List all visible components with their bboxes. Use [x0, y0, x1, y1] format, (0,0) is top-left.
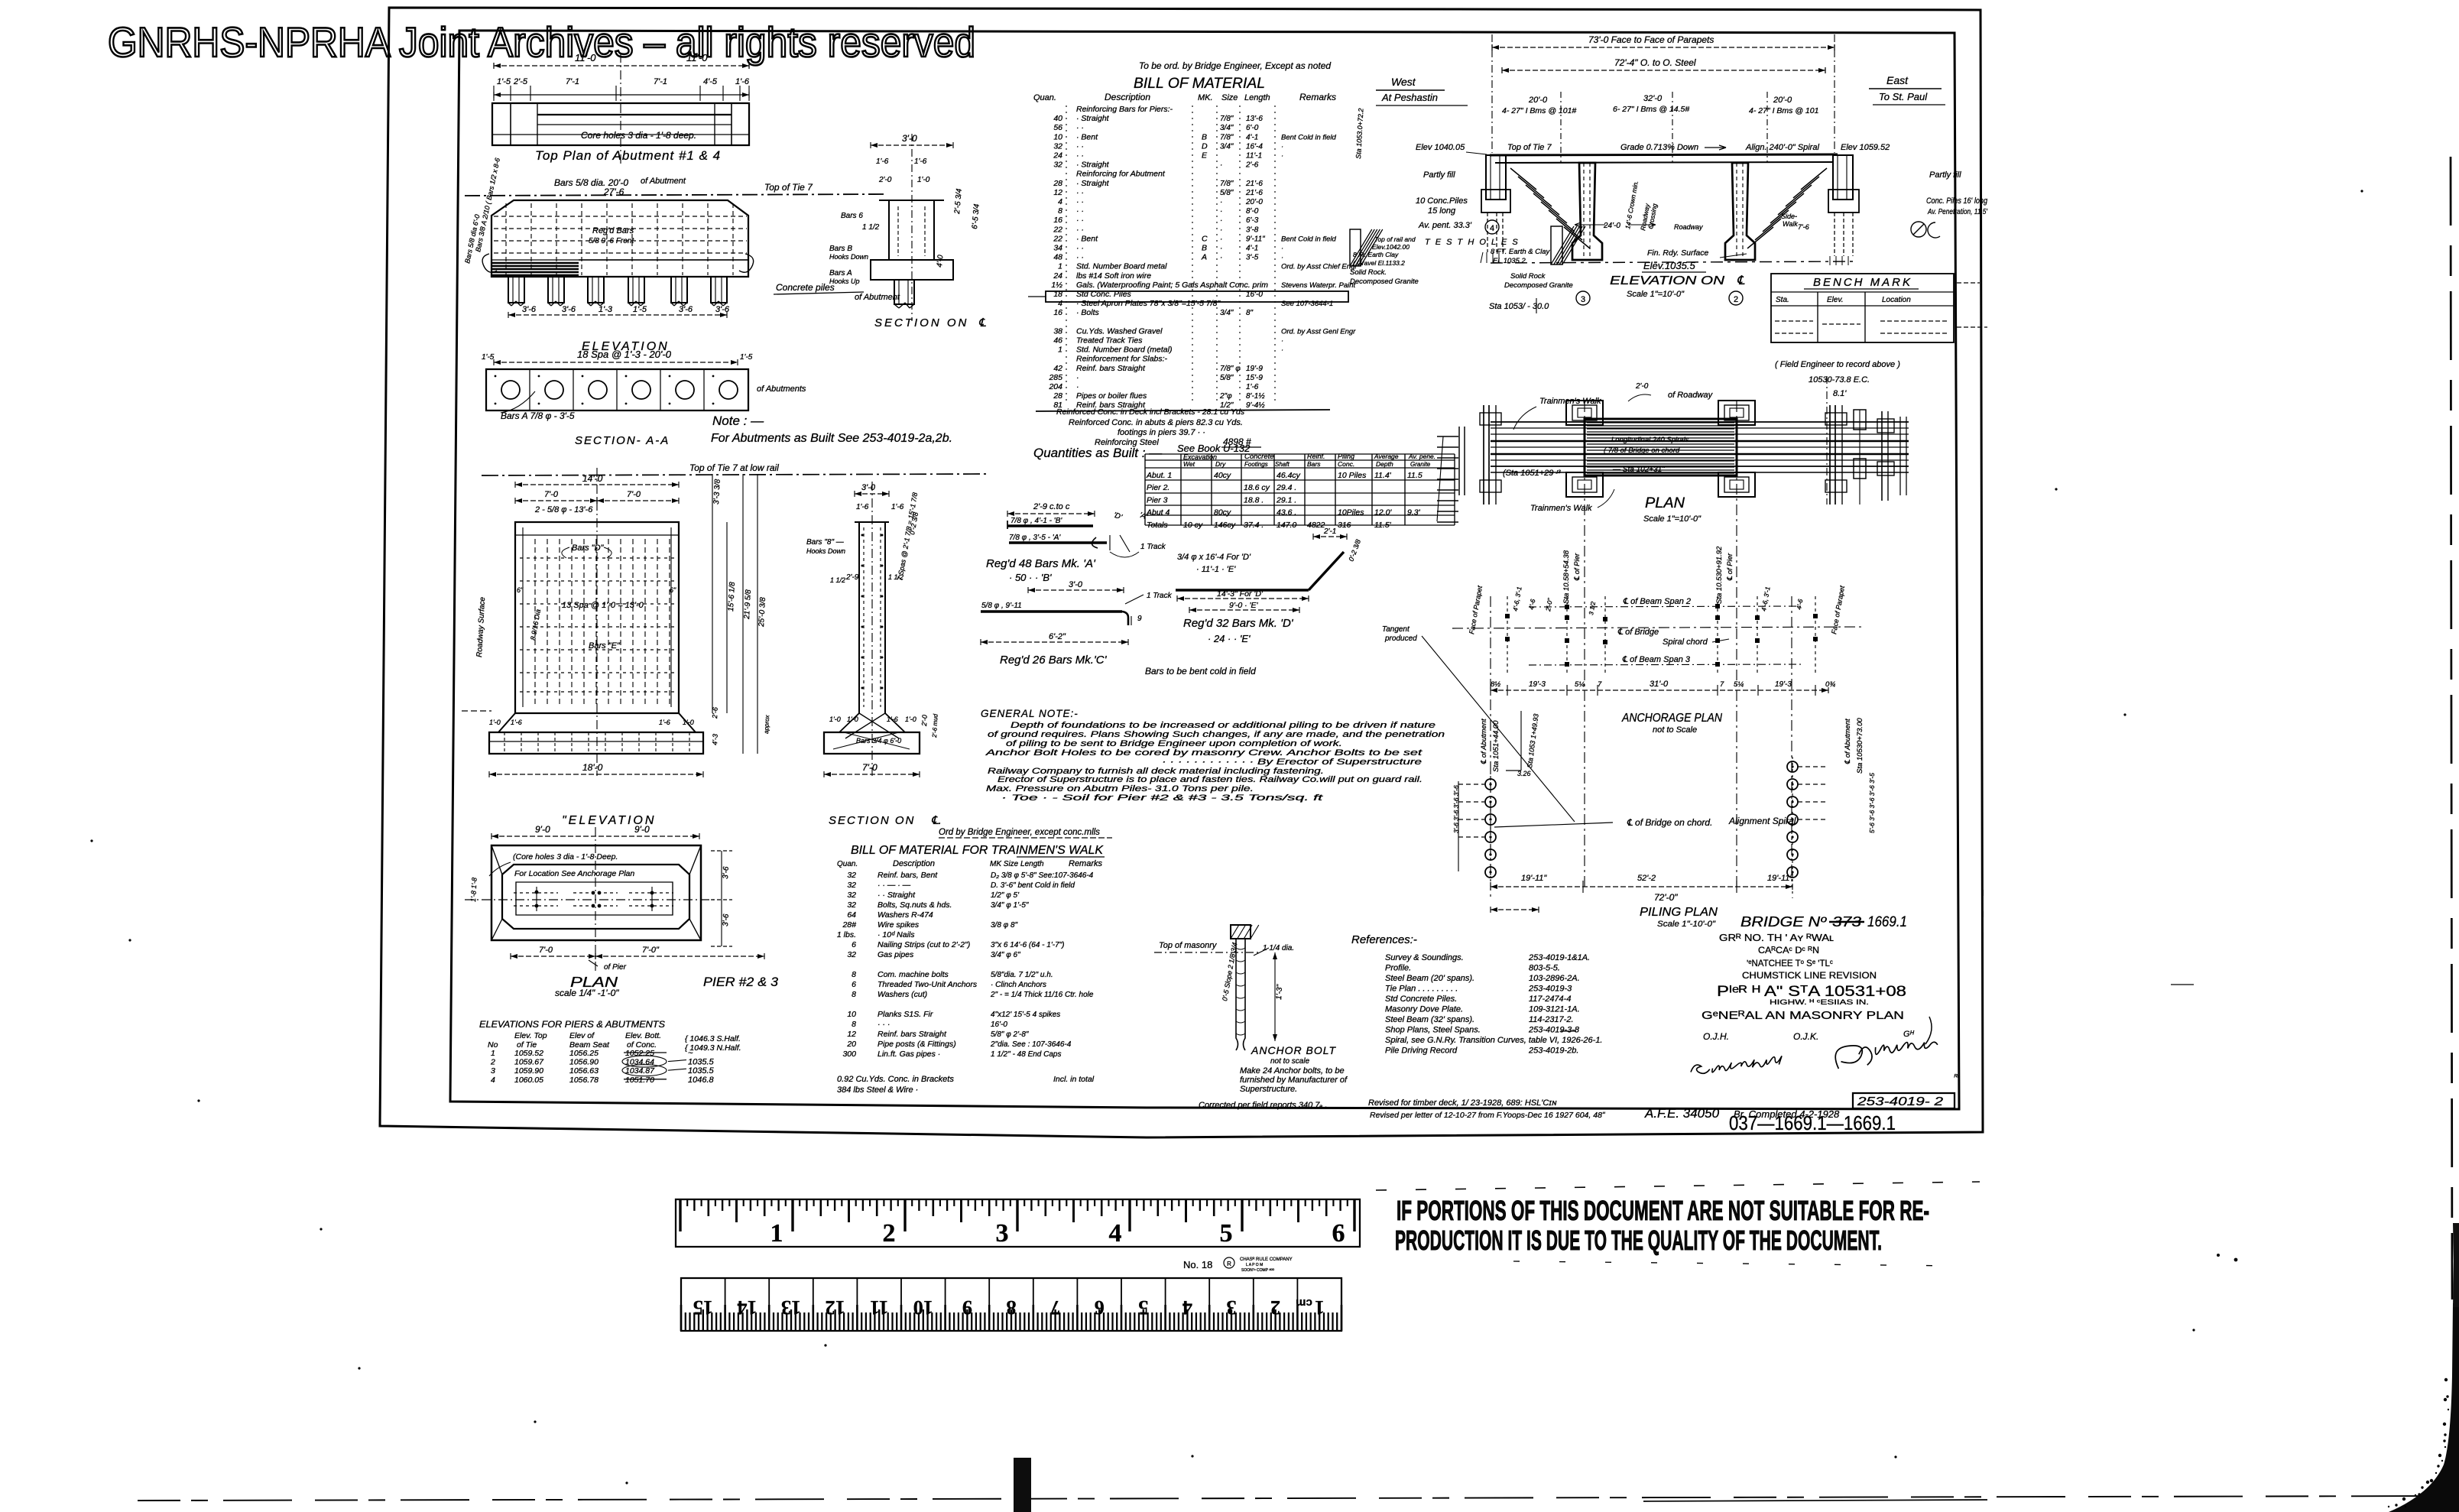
svg-text:Bars B: Bars B: [829, 245, 852, 253]
svg-text:1'-0: 1'-0: [829, 715, 841, 723]
svg-text:Tie Plan . . . . . . . . .: Tie Plan . . . . . . . . .: [1385, 985, 1458, 994]
svg-text:Reg'd Bars: Reg'd Bars: [592, 226, 634, 235]
svg-text:1669.1: 1669.1: [1867, 914, 1907, 930]
svg-text:Partly fill: Partly fill: [1929, 170, 1961, 180]
svg-text:Hooks Down: Hooks Down: [829, 253, 868, 261]
stamp smudge dashes: [1376, 1182, 1980, 1190]
svg-text:℄ of Abutment: ℄ of Abutment: [1844, 719, 1852, 764]
svg-text:3'-6: 3'-6: [522, 305, 537, 314]
svg-text:6": 6": [670, 586, 676, 594]
test hole hatched bar center: [1551, 226, 1562, 264]
svg-text:D. 3'-6" bent Cold in f: D. 3'-6" bent Cold in field: [991, 881, 1075, 890]
svg-text:Cu.Yds. Washed Gravel: Cu.Yds. Washed Gravel: [1076, 326, 1163, 336]
svg-text:1035.5: 1035.5: [688, 1066, 715, 1076]
abutment elevation hooks: [482, 254, 497, 272]
anchorage plan beam span 3 line: [1529, 664, 1804, 665]
svg-text:28#: 28#: [842, 920, 856, 930]
svg-text:Bars A 7/8 φ - 3'-5: Bars A 7/8 φ - 3'-5: [501, 410, 575, 421]
right edge scan line: [2451, 157, 2452, 1299]
svg-text:Erector of Superstructure is t: Erector of Superstructure is to place an…: [998, 775, 1423, 784]
svg-text:not to scale: not to scale: [1270, 1057, 1310, 1066]
svg-text:Bent Cold in field: Bent Cold in field: [1281, 235, 1337, 243]
svg-text:1'-3": 1'-3": [1275, 984, 1284, 1000]
svg-text:24: 24: [1053, 151, 1062, 161]
corner wedge speckle: [2388, 1506, 2389, 1507]
svg-text:Elev.1042.00: Elev.1042.00: [1372, 243, 1410, 251]
circled numbers: [1576, 291, 1590, 305]
svg-text:8'-0: 8'-0: [1246, 207, 1259, 216]
cm ruler body: [681, 1278, 1341, 1331]
svg-text:· · ·: · · ·: [878, 1020, 890, 1029]
svg-text:Concrete piles: Concrete piles: [776, 282, 835, 293]
svg-text:2'-9 c.to c: 2'-9 c.to c: [1033, 502, 1070, 511]
svg-text:· ·: · ·: [1076, 141, 1084, 151]
svg-text:8: 8: [852, 1020, 856, 1029]
svg-text:Solid Rock: Solid Rock: [1510, 272, 1546, 281]
svg-text:9'-0: 9'-0: [634, 824, 650, 835]
right abutment strips in plan: [1881, 411, 1883, 501]
svg-text:Reinforced Conc. in abuts & pi: Reinforced Conc. in abuts & piers 82.3 c…: [1069, 418, 1243, 427]
svg-text:· ·: · ·: [1076, 197, 1084, 206]
svg-text:9: 9: [1137, 615, 1142, 623]
svg-text:48: 48: [1053, 253, 1062, 262]
svg-text:· · · · · · · · · · · · B: · · · · · · · · · · · · By Erector of Su…: [1162, 758, 1422, 767]
svg-text:46.4cy: 46.4cy: [1277, 471, 1301, 480]
svg-text:3'-8: 3'-8: [1246, 226, 1259, 234]
pier section column: [858, 522, 860, 713]
svg-text:16: 16: [1053, 308, 1062, 317]
sparse specks: [90, 839, 92, 842]
svg-text:( Gravel El.1133.2: ( Gravel El.1133.2: [1353, 259, 1405, 267]
svg-text:37.4 .: 37.4 .: [1244, 521, 1264, 530]
svg-text:℄ of Pier: ℄ of Pier: [1573, 553, 1581, 581]
svg-text:Quan.: Quan.: [837, 860, 858, 868]
abutment pile spacing dimensions: [508, 314, 727, 316]
svg-text:1059.52: 1059.52: [514, 1049, 543, 1058]
svg-text:7/8": 7/8": [1220, 133, 1234, 141]
svg-text:Side-: Side-: [1781, 213, 1797, 220]
svg-text:32: 32: [847, 881, 856, 890]
svg-text:4"x12' 15'-5 4 spikes: 4"x12' 15'-5 4 spikes: [991, 1011, 1060, 1019]
svg-text:footings in piers 39.7 ·: footings in piers 39.7 · ·: [1118, 428, 1205, 437]
svg-text:5/8": 5/8": [1220, 374, 1234, 382]
svg-text:2'-0: 2'-0: [878, 176, 892, 184]
svg-text:13 Spa @ 1'-0 = 13'-0: 13 Spa @ 1'-0 = 13'-0: [562, 601, 644, 610]
svg-text:Align. 240'-0" Spiral: Align. 240'-0" Spiral: [1745, 143, 1819, 152]
piling plan left pile column: [1485, 779, 1496, 790]
svg-text:147.0: 147.0: [1277, 521, 1296, 530]
svg-text:10 cy: 10 cy: [1183, 521, 1203, 530]
svg-text:10Piles: 10Piles: [1338, 508, 1364, 518]
svg-text:(Core holes 3 dia - 1'-8 Deep.: (Core holes 3 dia - 1'-8 Deep.: [513, 852, 618, 861]
svg-text:21'-6: 21'-6: [1245, 180, 1263, 188]
svg-text:32: 32: [847, 950, 856, 959]
piling plan dimensions: [1491, 886, 1792, 887]
svg-text:HIGHW. ᴴ ᶜESIIAS IN.: HIGHW. ᴴ ᶜESIIAS IN.: [1770, 998, 1869, 1007]
svg-text:80cy: 80cy: [1214, 508, 1231, 518]
svg-text:Remarks: Remarks: [1069, 859, 1103, 868]
svg-text:1'-3: 1'-3: [599, 305, 613, 314]
svg-text:Grade 0.713% Down: Grade 0.713% Down: [1620, 143, 1698, 152]
svg-text:1051.70: 1051.70: [625, 1076, 654, 1085]
drawing number box: [1853, 1093, 1955, 1108]
svg-text:32: 32: [1053, 161, 1062, 170]
svg-text:4822: 4822: [1307, 521, 1325, 530]
svg-text:3'-3 3/8: 3'-3 3/8: [712, 479, 722, 505]
svg-text:253-4019-2b.: 253-4019-2b.: [1528, 1046, 1578, 1056]
svg-text:5'-6 3'-6 3'-6 3'-6 3'-5: 5'-6 3'-6 3'-6 3'-6 3'-5: [1868, 773, 1876, 833]
svg-text:Fin. Rdy. Surface: Fin. Rdy. Surface: [1647, 248, 1708, 258]
svg-text:24: 24: [1053, 271, 1062, 281]
svg-text:6'-0: 6'-0: [1246, 124, 1259, 132]
svg-text:1'-6: 1'-6: [856, 503, 869, 511]
svg-text:Ord. by Asst Chief Engr: Ord. by Asst Chief Engr: [1281, 263, 1358, 271]
svg-text:1 Track: 1 Track: [1147, 592, 1173, 600]
svg-text:·: ·: [1076, 373, 1079, 382]
svg-text:1035.5: 1035.5: [688, 1058, 715, 1067]
svg-text:7'-0: 7'-0: [862, 762, 878, 773]
svg-text:Elev 1040.05: Elev 1040.05: [1416, 143, 1465, 152]
svg-text:Stevens Waterpr. Paint: Stevens Waterpr. Paint: [1281, 281, 1356, 290]
svg-text:· 24 · · 'E': · 24 · · 'E': [1208, 633, 1251, 644]
svg-text:L A P O M: L A P O M: [1246, 1263, 1263, 1267]
svg-text:Abut 4: Abut 4: [1146, 508, 1170, 518]
svg-text:3'-6: 3'-6: [562, 305, 576, 314]
svg-text:15'-6 1/8: 15'-6 1/8: [727, 582, 737, 612]
svg-text:3: 3: [996, 1219, 1009, 1248]
svg-text:12: 12: [1053, 188, 1062, 197]
svg-text:253-4019- 2: 253-4019- 2: [1857, 1095, 1943, 1108]
svg-text:24'-0: 24'-0: [1603, 222, 1620, 230]
svg-text:Bars A: Bars A: [829, 269, 852, 277]
svg-text:BENCH MARK: BENCH MARK: [1813, 276, 1912, 289]
svg-text:7/8 φ , 3'-5 - 'A': 7/8 φ , 3'-5 - 'A': [1009, 534, 1061, 542]
svg-text:037—1669.1—1669.1: 037—1669.1—1669.1: [1729, 1111, 1896, 1134]
svg-text:Sta 10.58+54.38: Sta 10.58+54.38: [1562, 550, 1571, 604]
svg-text:Walk: Walk: [1783, 220, 1798, 228]
svg-text:· ·: · ·: [1076, 216, 1084, 225]
svg-text:· Straight: · Straight: [1076, 179, 1110, 188]
top of tie line: [465, 194, 887, 196]
svg-text:1 Track: 1 Track: [1140, 543, 1166, 551]
svg-text:11'-1: 11'-1: [1246, 152, 1262, 161]
svg-text:· Bent: · Bent: [1076, 132, 1098, 141]
svg-text:℄ of Bridge: ℄ of Bridge: [1617, 628, 1659, 637]
svg-text:scale 1/4" -1'-0": scale 1/4" -1'-0": [555, 988, 619, 998]
pier plan 9-0 dims: [491, 835, 699, 837]
svg-text:6": 6": [517, 586, 524, 594]
svg-text:21'-9 5/8: 21'-9 5/8: [743, 589, 753, 621]
svg-text:9'-11": 9'-11": [1246, 235, 1265, 243]
svg-text:· Toe ·: · Toe · - Soil for Pier #2 & #3 - 3.5 To…: [1001, 793, 1324, 803]
svg-text:7/8": 7/8": [1220, 115, 1234, 123]
svg-text:Elev. Top: Elev. Top: [514, 1031, 547, 1040]
svg-text:Pipes or boiler flues: Pipes or boiler flues: [1076, 391, 1147, 401]
svg-text:Pᴵᵉᴿ ᴴ Aʺ SᵀA 10531+08: Pᴵᵉᴿ ᴴ Aʺ SᵀA 10531+08: [1717, 984, 1906, 1000]
svg-text:Quan.: Quan.: [1033, 93, 1056, 102]
svg-text:Com. machine bolts: Com. machine bolts: [878, 970, 949, 979]
bill of material column rules: [1066, 105, 1067, 404]
piling plan right pile column: [1787, 761, 1798, 772]
svg-text:Bars "E": Bars "E": [589, 641, 621, 651]
svg-text:·: ·: [1281, 152, 1283, 161]
anchorage plan bridge centerline: [1452, 627, 1865, 628]
svg-text:Depth of foundations to be: Depth of foundations to be increased or …: [1011, 721, 1435, 730]
svg-text:11.4': 11.4': [1374, 471, 1392, 480]
svg-text:SECTION ON: SECTION ON: [829, 814, 915, 827]
svg-text:SECTION ON: SECTION ON: [874, 316, 968, 329]
svg-text:{ 1049.3 N.Half.: { 1049.3 N.Half.: [685, 1043, 741, 1053]
svg-text:℄ of Bridge on chord.: ℄ of Bridge on chord.: [1627, 817, 1712, 828]
signature g m weang (flourish): [1835, 1042, 1938, 1069]
svg-text:3'-6: 3'-6: [679, 305, 693, 314]
svg-text:SECTION- A-A: SECTION- A-A: [575, 434, 670, 447]
svg-text:Concrete: Concrete: [1244, 453, 1274, 461]
svg-text:Nailing Strips (cut to 2'-2"): Nailing Strips (cut to 2'-2"): [878, 940, 970, 949]
svg-text:3/4" φ 1'-5": 3/4" φ 1'-5": [991, 901, 1029, 910]
svg-text:8.1': 8.1': [1833, 389, 1847, 398]
svg-text:3"x 6 14'-6 (64 - 1'-7"): 3"x 6 14'-6 (64 - 1'-7"): [991, 941, 1065, 949]
svg-text:384 lbs Steel & Wire ·: 384 lbs Steel & Wire ·: [837, 1085, 918, 1095]
abutment section body: [888, 200, 890, 260]
svg-text:See 107-3644-1: See 107-3644-1: [1281, 300, 1333, 308]
svg-text:5: 5: [1220, 1219, 1233, 1248]
svg-text:4- 27" I Bms @ 101: 4- 27" I Bms @ 101: [1749, 106, 1818, 115]
svg-text:19'-11": 19'-11": [1521, 874, 1547, 883]
svg-text:·: ·: [1076, 382, 1079, 391]
svg-text:16'-0: 16'-0: [991, 1020, 1007, 1029]
svg-text:Decomposed Granite: Decomposed Granite: [1504, 281, 1573, 290]
svg-text:Footings: Footings: [1244, 461, 1268, 468]
svg-text:16'-4: 16'-4: [1246, 142, 1263, 151]
svg-text:11.5': 11.5': [1374, 521, 1392, 530]
svg-text:1'-6: 1'-6: [887, 715, 898, 723]
svg-text:GᵉNEᴿAL AN MASONRY PLAN: GᵉNEᴿAL AN MASONRY PLAN: [1702, 1009, 1904, 1022]
svg-text:Remarks: Remarks: [1299, 92, 1336, 102]
svg-text:· ·: · ·: [1076, 253, 1084, 262]
svg-text:1'-6: 1'-6: [1246, 383, 1259, 391]
svg-text:Totals: Totals: [1147, 521, 1168, 530]
svg-text:Reinf. bars Straight: Reinf. bars Straight: [1076, 364, 1146, 373]
svg-text:2'-1: 2'-1: [1323, 527, 1336, 536]
svg-text:Planks S1S. Fir: Planks S1S. Fir: [878, 1010, 933, 1019]
svg-text:Top of masonry: Top of masonry: [1159, 941, 1218, 950]
svg-text:Description: Description: [1105, 92, 1150, 102]
svg-text:Reg'd 48 Bars Mk. 'A': Reg'd 48 Bars Mk. 'A': [986, 557, 1096, 570]
svg-text:Revised per letter of 12-10-27: Revised per letter of 12-10-27 from F.Yo…: [1370, 1111, 1606, 1120]
svg-text:Dry: Dry: [1215, 460, 1226, 468]
right bent strips: [1829, 405, 1831, 505]
svg-text:3'-6: 3'-6: [722, 866, 731, 879]
svg-text:52'-2: 52'-2: [1637, 874, 1656, 883]
section A-A body: [486, 369, 748, 410]
svg-text:Elev 1059.52: Elev 1059.52: [1841, 143, 1890, 152]
svg-text:PLAN: PLAN: [1645, 495, 1685, 511]
svg-text:℄: ℄: [1737, 274, 1745, 287]
svg-text:1'-5: 1'-5: [497, 77, 511, 86]
svg-text:Max. Pressure on Abutm Pi: Max. Pressure on Abutm Piles- 31.0 Tons …: [986, 784, 1254, 793]
svg-text:14'-3" For 'D': 14'-3" For 'D': [1217, 589, 1264, 599]
svg-text:1'-5: 1'-5: [633, 305, 647, 314]
svg-text:3/4": 3/4": [1220, 309, 1234, 317]
pier pads in plan: [1566, 401, 1603, 425]
svg-text:Spiral, see G.N.Ry. Transition: Spiral, see G.N.Ry. Transition Curves, t…: [1385, 1036, 1603, 1045]
svg-text:℄.: ℄.: [931, 814, 942, 827]
svg-text:Sta 1051+44.00: Sta 1051+44.00: [1492, 720, 1500, 772]
svg-text:ᴿᵋ: ᴿᵋ: [1954, 1073, 1961, 1082]
svg-text:Size: Size: [1221, 93, 1238, 102]
svg-text:Bars "D": Bars "D": [572, 543, 605, 553]
svg-text:3: 3: [1581, 295, 1585, 304]
svg-text:Shop Plans, Steel Spans.: Shop Plans, Steel Spans.: [1385, 1026, 1481, 1035]
svg-text:IF PORTIONS OF THIS DOCUMENT A: IF PORTIONS OF THIS DOCUMENT ARE NOT SUI…: [1397, 1195, 1929, 1226]
svg-text:3: 3: [491, 1066, 495, 1076]
svg-text:285: 285: [1048, 373, 1062, 382]
svg-text:204: 204: [1048, 382, 1062, 391]
svg-text:8: 8: [1058, 206, 1062, 216]
cm ruler millimeter ticks: [680, 1305, 683, 1331]
svg-text:Reinf. bars, Bent: Reinf. bars, Bent: [878, 871, 938, 880]
svg-text:· · Straight: · · Straight: [878, 891, 916, 900]
svg-text:— Sta 102+31ʹʹ: — Sta 102+31ʹʹ: [1612, 466, 1666, 474]
svg-text:109-3121-1A.: 109-3121-1A.: [1529, 1005, 1580, 1014]
svg-text:Bars to be bent cold in fi: Bars to be bent cold in field: [1145, 666, 1256, 677]
svg-text:El. 1035.2: El. 1035.2: [1493, 257, 1526, 265]
svg-text:R: R: [1227, 1261, 1231, 1267]
svg-text:7'-0": 7'-0": [642, 946, 660, 955]
svg-text:Wet: Wet: [1183, 460, 1195, 468]
bottom right corner black wedge: [2389, 1303, 2459, 1512]
svg-text:300: 300: [842, 1050, 856, 1059]
svg-text:Ord by Bridge Engineer, excep: Ord by Bridge Engineer, except conc.mlls: [939, 828, 1100, 837]
svg-text:253-4019-3: 253-4019-3: [1528, 985, 1572, 994]
svg-text:Steel Beam (32' spans).: Steel Beam (32' spans).: [1385, 1015, 1474, 1024]
svg-text:1059.90: 1059.90: [514, 1066, 543, 1076]
svg-text:·: ·: [1220, 226, 1222, 234]
svg-text:7'-1: 7'-1: [654, 77, 667, 86]
svg-text:0.92 Cu.Yds. Conc. in Bracket: 0.92 Cu.Yds. Conc. in Brackets: [837, 1075, 954, 1084]
svg-text:32: 32: [847, 871, 856, 880]
svg-text:7'-0: 7'-0: [544, 490, 559, 499]
svg-text:7'-6: 7'-6: [1798, 223, 1809, 231]
svg-text:GRᴿ NO. TH ʹ Aʏ ᴿWAʟ: GRᴿ NO. TH ʹ Aʏ ᴿWAʟ: [1719, 933, 1834, 943]
svg-text:Shaft: Shaft: [1275, 461, 1290, 468]
top plan of abutment sub-dimension row: [494, 94, 749, 96]
svg-text:Top of Tie 7: Top of Tie 7: [764, 182, 813, 193]
svg-text:PRODUCTION IT IS DUE TO THE QU: PRODUCTION IT IS DUE TO THE QUALITY OF T…: [1395, 1225, 1882, 1256]
svg-text:1056.78: 1056.78: [569, 1076, 599, 1085]
svg-text:Bolts, Sq.nuts & hds.: Bolts, Sq.nuts & hds.: [878, 900, 952, 910]
svg-text:1056.90: 1056.90: [569, 1058, 599, 1067]
svg-text:Bars 3/4 φ 6'-0: Bars 3/4 φ 6'-0: [856, 737, 901, 745]
svg-text:5¼: 5¼: [1734, 680, 1744, 689]
pier elevation body: [515, 522, 679, 713]
quantities as built table grid: [1144, 454, 1146, 525]
svg-text:Reinf.: Reinf.: [1307, 453, 1325, 460]
svg-text:( Field Engineer to record a: ( Field Engineer to record above ): [1775, 360, 1900, 369]
svg-text:℄ of Abutment: ℄ of Abutment: [1480, 719, 1488, 764]
svg-text:Anchor Bolt Holes to be co: Anchor Bolt Holes to be cored by masonry…: [985, 748, 1423, 758]
svg-text:42: 42: [1053, 364, 1062, 373]
deck plan center girder block: [1585, 419, 1737, 475]
svg-text:253-4019-3-8: 253-4019-3-8: [1528, 1026, 1580, 1035]
svg-text:· ·: · ·: [1076, 151, 1084, 161]
svg-text:Treated Track Ties: Treated Track Ties: [1076, 336, 1143, 346]
svg-text:32: 32: [1053, 141, 1062, 151]
svg-text:32: 32: [847, 900, 856, 910]
svg-text:Av. Penetration, 11.5': Av. Penetration, 11.5': [1927, 207, 1988, 216]
svg-text:18 Spa @ 1'-3 - 20'-0: 18 Spa @ 1'-3 - 20'-0: [577, 349, 672, 360]
svg-text:1'-0: 1'-0: [917, 176, 930, 184]
svg-text:103-2896-2A.: 103-2896-2A.: [1529, 974, 1580, 983]
svg-text:20'-0: 20'-0: [1773, 96, 1792, 105]
svg-text:22: 22: [1053, 234, 1062, 243]
svg-text:Bent Cold in field: Bent Cold in field: [1281, 133, 1337, 141]
svg-text:9'-4½: 9'-4½: [1246, 401, 1265, 410]
svg-text:2'-0: 2'-0: [1635, 382, 1649, 391]
bench mark table: [1771, 274, 1954, 342]
svg-text:furnished by Manufacturer of: furnished by Manufacturer of: [1240, 1076, 1348, 1085]
pier plan side dims: [721, 851, 722, 946]
svg-text:5/8 φ , 9'-11: 5/8 φ , 9'-11: [981, 602, 1022, 610]
svg-text:4'-0: 4'-0: [936, 255, 945, 268]
svg-text:C: C: [1202, 234, 1208, 243]
svg-text:2: 2: [490, 1058, 495, 1067]
svg-text:A.F.E. 34050: A.F.E. 34050: [1644, 1106, 1720, 1121]
svg-text:1: 1: [1058, 346, 1062, 355]
deck plan rail lines: [1491, 421, 1909, 423]
svg-text:Pier 2.: Pier 2.: [1147, 483, 1169, 492]
svg-text:1056.25: 1056.25: [569, 1049, 599, 1058]
svg-text:19'-11": 19'-11": [1767, 874, 1793, 883]
svg-text:Av. pent. 33.3': Av. pent. 33.3': [1418, 221, 1472, 230]
svg-text:ANCHORAGE PLAN: ANCHORAGE PLAN: [1621, 712, 1722, 725]
svg-text:Profile.: Profile.: [1385, 964, 1411, 973]
svg-text:146cy: 146cy: [1214, 521, 1236, 530]
svg-text:1059.67: 1059.67: [514, 1058, 544, 1067]
svg-text:of Abutment: of Abutment: [641, 177, 686, 186]
svg-text:See Book U-132: See Book U-132: [1177, 443, 1251, 454]
svg-text:10: 10: [847, 1010, 856, 1019]
svg-text:·: ·: [1220, 254, 1222, 262]
svg-text:B: B: [1202, 132, 1207, 141]
svg-text:of ground requires. Plans S: of ground requires. Plans Showing Such c…: [988, 730, 1445, 739]
svg-text:9'-0: 9'-0: [535, 824, 550, 835]
boxed row std conc piles: [1046, 291, 1348, 302]
svg-text:of Roadway: of Roadway: [1668, 391, 1714, 400]
svg-text:4: 4: [1058, 197, 1062, 206]
svg-text:Alignment Spiral: Alignment Spiral: [1728, 816, 1796, 826]
svg-text:28: 28: [1053, 179, 1062, 188]
svg-text:Lin.ft. Gas pipes ·: Lin.ft. Gas pipes ·: [878, 1050, 940, 1059]
svg-text:1'-0: 1'-0: [847, 715, 858, 723]
svg-text:19'-3: 19'-3: [1775, 680, 1792, 689]
svg-text:Bars 6: Bars 6: [841, 212, 863, 220]
svg-text:·: ·: [1220, 216, 1222, 225]
svg-text:Bars: Bars: [1307, 460, 1321, 468]
svg-text:Incl. in total: Incl. in total: [1053, 1075, 1095, 1084]
svg-text:7/8" φ: 7/8" φ: [1220, 365, 1241, 373]
svg-text:13'-6: 13'-6: [1246, 115, 1263, 123]
svg-text:O.J.H.: O.J.H.: [1703, 1031, 1729, 1042]
svg-text:3'-0: 3'-0: [1069, 580, 1083, 589]
svg-text:Washers (cut): Washers (cut): [878, 990, 927, 999]
svg-text:West: West: [1391, 76, 1416, 88]
svg-text:1046.8: 1046.8: [688, 1076, 715, 1085]
svg-text:5¼: 5¼: [1575, 680, 1585, 689]
ground line: [1491, 261, 1857, 263]
svg-text:6'-2": 6'-2": [1049, 632, 1066, 641]
